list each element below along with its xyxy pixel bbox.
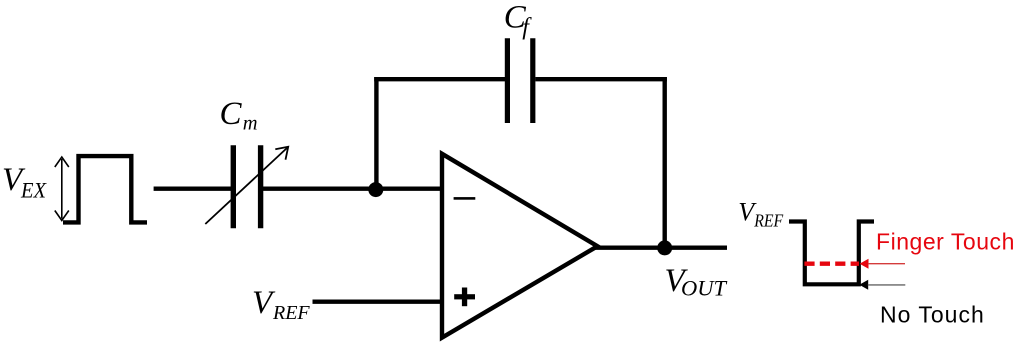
C_m variable arrow xyxy=(205,147,288,224)
C_m label xyxy=(220,96,258,135)
wire: feedback top right segment xyxy=(535,77,667,81)
V_EX label xyxy=(2,162,47,203)
op-amp plus symbol xyxy=(454,288,475,307)
no-touch arrow xyxy=(859,280,905,290)
node: output junction xyxy=(657,240,672,255)
svg-text:REF: REF xyxy=(272,302,310,324)
svg-text:OUT: OUT xyxy=(681,275,727,300)
V_REF level label (right waveform) xyxy=(738,198,784,231)
V_EX amplitude arrow xyxy=(55,157,69,221)
capacitor C_m plates xyxy=(233,145,260,228)
wire: C_m to op-amp inverting input xyxy=(263,186,444,190)
wire: V_REF to op-amp non-inverting input xyxy=(313,300,445,304)
op-amp minus symbol xyxy=(454,197,476,200)
op-amp U1 xyxy=(442,154,598,338)
capacitor C_f plates xyxy=(507,38,532,123)
svg-text:REF: REF xyxy=(753,211,784,231)
svg-text:Finger Touch: Finger Touch xyxy=(876,229,1015,255)
svg-text:m: m xyxy=(243,113,258,135)
svg-text:No Touch: No Touch xyxy=(880,302,985,328)
V_EX pulse waveform xyxy=(63,156,147,222)
output wire xyxy=(595,245,727,249)
V_REF input label xyxy=(252,285,310,324)
wire: node up to feedback xyxy=(374,77,378,190)
C_f label xyxy=(504,0,533,41)
wire: pulse source to C_m xyxy=(154,186,232,190)
finger-touch dashed level xyxy=(804,262,859,266)
right output waveform xyxy=(789,222,874,285)
svg-text:EX: EX xyxy=(20,178,47,203)
finger-touch arrow xyxy=(860,259,905,269)
svg-text:C: C xyxy=(220,96,243,132)
wire: feedback top left segment xyxy=(374,77,505,81)
node: inverting input junction xyxy=(368,182,383,197)
V_OUT label xyxy=(665,263,728,300)
wire: feedback down to output node xyxy=(663,77,667,248)
